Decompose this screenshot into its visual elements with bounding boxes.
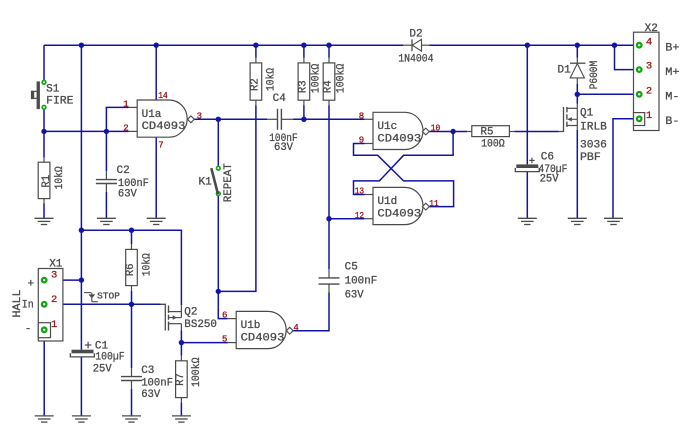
wire X1 pin1 to ground [43,332,45,416]
wire C5 to U1b output [293,293,329,331]
svg-text:P600M: P600M [589,61,601,90]
pin number 8 (U1c) [359,111,364,121]
pin stub U1c pin8 [365,118,373,120]
svg-text:1: 1 [646,110,652,122]
transistor Q1 IRLB3036 (N-MOSFET) [559,104,608,164]
capacitor C1 100uF [70,341,124,376]
svg-text:U1d: U1d [377,196,397,208]
wire supply branch y230 [81,230,181,305]
svg-text:63V: 63V [345,289,364,301]
junction x81/y230 [79,228,84,233]
svg-text:100kΩ: 100kΩ [336,63,348,93]
svg-text:CD4093: CD4093 [377,208,421,220]
svg-text:3: 3 [51,270,57,282]
pin stub U1d pin13 [365,194,374,196]
capacitor C5 100nF [319,261,378,301]
wire rail to C6 [526,45,528,164]
svg-text:STOP: STOP [97,292,120,302]
wire U1a pin1 to node [106,107,128,131]
pin number 14 (U1a) [158,91,168,101]
pin number 2 (X1) [51,294,57,306]
svg-text:R5: R5 [481,127,494,139]
svg-text:10: 10 [431,124,441,134]
ground [172,416,191,422]
pin stub R5 right [509,131,514,133]
resistor R5 100ohm [472,126,510,151]
svg-text:Q2: Q2 [184,306,197,318]
wire supply rail top (right of D2, to X2 B+) [430,44,638,46]
pin stub R7 bottom [180,398,182,403]
wire U1c output [429,131,467,133]
ground [604,218,623,224]
junction U1a out/K1 [216,117,221,122]
wire node to U1a pin2 [44,130,129,132]
wire U1a pin7 to ground [155,137,157,218]
connector X1 (HALL) [38,259,63,342]
wire X1 pin3 to supply branch [46,279,81,281]
pin number 12 (U1d) [355,211,365,221]
wire R7 top [180,343,182,356]
wire U1a output to C4 [194,118,267,120]
svg-text:9: 9 [359,136,364,146]
resistor R3 100k [297,63,322,100]
node label M+ [665,67,679,79]
svg-text:-: - [25,323,32,335]
wire U1b pin5 [181,342,227,344]
wire R2 bottom to K1 node [218,105,256,291]
svg-text:CD4093: CD4093 [377,133,421,145]
pushbutton S1 FIRE [31,80,74,109]
resistor R2 10k [249,63,277,100]
svg-text:100kΩ: 100kΩ [311,63,323,93]
svg-text:25V: 25V [540,174,559,186]
svg-text:3036: 3036 [580,140,607,152]
pin number 13 (U1d) [355,187,365,197]
ground [35,416,54,422]
svg-text:4: 4 [293,323,298,333]
pin number 2 (X2) [646,85,652,97]
svg-text:CD4093: CD4093 [142,121,186,133]
svg-text:1N4004: 1N4004 [398,54,434,66]
wire U1d pin12 [329,218,365,220]
svg-text:1: 1 [123,99,128,109]
op-amp U1b CD4093 (NAND gate) [236,311,293,348]
svg-text:100nF: 100nF [141,377,173,389]
svg-text:10kΩ: 10kΩ [54,166,66,189]
pin number 7 (U1a) [158,141,163,151]
junction S1/R1/U1a [41,129,46,134]
pin number 9 (U1c) [359,136,364,146]
node label B- [665,116,679,128]
svg-text:D2: D2 [409,29,422,41]
junction rail/R3 [301,43,306,48]
svg-text:U1a: U1a [142,109,162,121]
wire supply rail top (left of D2) [44,44,403,46]
svg-text:R7: R7 [175,373,187,386]
pin stub D1 top [576,58,578,64]
svg-text:C2: C2 [117,165,130,177]
svg-text:R6: R6 [125,264,137,277]
svg-text:10kΩ: 10kΩ [141,253,153,276]
wire Q1 source to ground [576,130,578,218]
svg-text:REPEAT: REPEAT [223,163,235,202]
net label HALL [12,290,24,318]
pin stub R4 bottom [328,100,330,105]
pin stub U1b pin5 [228,342,236,344]
diode D1 P600M [558,61,602,90]
pin stub R4 top [328,58,330,63]
wire R4 top [328,45,330,58]
svg-text:100µF: 100µF [95,352,125,364]
wire K1 bottom to node [217,196,219,292]
wire R5 to Q1 gate [514,131,558,133]
svg-text:1: 1 [51,319,57,331]
svg-text:25V: 25V [93,363,112,375]
wire R4 bottom to U1d pin12 / C5 [328,105,330,219]
connector X2 [634,23,660,131]
pin stub R6 top [131,244,133,249]
transistor Q2 BS250 (P-MOSFET) [161,304,217,331]
svg-text:R1: R1 [41,174,53,187]
svg-text:63V: 63V [118,189,137,201]
svg-text:C3: C3 [141,365,154,377]
svg-text:BS250: BS250 [184,319,217,331]
svg-text:Q1: Q1 [580,107,594,119]
node label M- [665,92,679,104]
pin number 4 (X2) [646,36,652,48]
pin number 1 (X1) [51,319,57,331]
pin stub C4 left [267,118,277,120]
junction R6/In/C3 [129,302,134,307]
pin number 10 (U1c) [431,124,441,134]
junction rail/U1a pin14 [154,43,159,48]
wire R1 to ground [43,204,45,219]
wire S1 bottom to node [43,109,45,131]
wire R6 bottom [131,291,133,305]
pin number 3 (U1a) [197,111,202,121]
capacitor C3 100nF [121,365,173,401]
svg-text:63V: 63V [141,389,160,401]
capacitor C2 100nF [96,165,149,200]
junction y230/R6 [129,228,134,233]
svg-text:IRLB: IRLB [580,121,607,133]
wire R7 to ground [180,403,182,416]
wire R3 top [303,45,305,58]
diode D2 1N4004 [398,29,434,66]
op-amp U1a CD4093 (NAND gate) [137,100,194,137]
pin number 2 (U1a) [123,124,128,134]
svg-text:B+: B+ [665,43,679,55]
pin stub U1d pin12 [365,218,373,220]
wire R3 bottom [303,105,305,119]
wire C1 to ground [80,357,82,416]
wire supply branch x81 [80,45,82,230]
pin stub R1 top [43,158,45,163]
wire node to U1b pin6 [218,291,228,318]
svg-text:14: 14 [158,91,168,101]
svg-text:HALL: HALL [12,290,24,318]
wire U1c out to U1d pin13 (cross) [354,132,454,195]
junction pin1/pin2/C2 [104,129,109,134]
pin number 4 (U1b) [293,323,298,333]
node label In (X1 pin2) [22,299,34,311]
wire node to C5 [328,219,330,270]
ground [72,416,91,422]
wire Q2 drain to node [180,331,182,343]
svg-text:FIRE: FIRE [46,95,74,107]
junction rail/D1 [575,43,580,48]
pin stub C3 bottom [131,381,133,389]
junction C4 net/R3 [301,117,306,122]
ground [35,218,54,224]
pin stub R1 bottom [43,199,45,204]
svg-text:D1: D1 [558,65,572,77]
junction K1/R2/U1b pin6 [216,289,221,294]
ground [568,218,587,224]
svg-text:B-: B- [665,116,679,128]
wire R1 top [43,131,45,157]
svg-text:C6: C6 [541,151,554,163]
op-amp U1c CD4093 (NAND gate) [373,112,429,149]
node label B+ [665,43,679,55]
wire rail to D1 cathode [576,45,578,57]
pin stub R3 top [303,58,305,63]
wire U1c pin9 to U1d out (cross) [354,144,454,207]
wire supply branch to X1 pin3 [80,230,82,280]
pin stub R2 bottom [255,100,257,105]
junction rail/M+ [612,43,617,48]
resistor R4 100k [323,63,348,100]
svg-text:63V: 63V [274,142,293,154]
svg-text:10kΩ: 10kΩ [266,68,278,91]
junction D1/Q1 drain/M- [575,92,580,97]
wire C4 to U1c pin8 [293,118,365,120]
junction rail/C6 [525,43,530,48]
svg-text:C4: C4 [273,93,287,105]
wire node to C3 [131,304,133,368]
pin number 3 (X2) [646,61,652,73]
pin stub U1a pin2 [129,130,138,132]
node label - (X1 pin1) [25,323,32,335]
pin number 6 (U1b) [222,311,227,321]
pin stub C2 bottom [105,184,107,192]
pin number 1 (X2) [646,110,652,122]
ground [122,416,141,422]
ground [518,218,537,224]
svg-text:100Ω: 100Ω [481,139,505,151]
svg-text:6: 6 [222,311,227,321]
junction R4 net/U1d pin12 [326,216,331,221]
svg-text:8: 8 [359,111,364,121]
svg-text:3: 3 [197,111,202,121]
pin stub U1c pin9 [365,143,374,145]
pin stub C2 top [105,171,107,179]
wire M+ to rail [615,45,638,69]
svg-text:11: 11 [429,199,439,209]
svg-text:X2: X2 [645,23,658,35]
wire K1 top [217,119,219,166]
svg-text:C5: C5 [345,261,358,273]
pin number 3 (X1) [51,270,57,282]
pin stub R7 top [180,356,182,361]
svg-text:13: 13 [355,187,365,197]
svg-text:2: 2 [51,294,57,306]
resistor R6 10k [125,249,153,285]
pin number 11 (U1d) [429,199,439,209]
capacitor C4 100nF [269,93,298,154]
wire U1a pin14 [155,45,157,100]
pin stub R2 top [255,58,257,63]
pin stub D1 bottom [576,78,578,84]
wire R2 top [255,45,257,58]
testpoint STOP [84,292,120,302]
svg-text:2: 2 [646,85,652,97]
svg-text:R3: R3 [297,80,309,93]
svg-text:2: 2 [123,124,128,134]
ground [147,218,166,224]
junction rail/R4 [326,43,331,48]
svg-text:M-: M- [665,92,679,104]
wire M- to X2 pin2 [577,93,637,95]
svg-text:M+: M+ [665,67,679,79]
resistor R1 10k [38,162,66,198]
junction x81/X1 pin3 [79,277,84,282]
ground [97,218,116,224]
wire R6 top [131,230,133,244]
wire C6 to ground [526,172,528,219]
junction U1c out/R5 [450,129,455,134]
svg-text:+: + [28,278,35,290]
pin stub C3 top [131,368,133,376]
wire C3 to ground [131,389,133,416]
svg-text:R4: R4 [323,80,335,93]
svg-text:100kΩ: 100kΩ [191,357,203,387]
pin stub U1a pin1 [129,106,138,108]
svg-text:3: 3 [646,61,652,73]
svg-text:R2: R2 [249,78,261,91]
svg-text:CD4093: CD4093 [241,332,285,344]
pin stub R3 bottom [303,100,305,105]
resistor R7 100k [175,357,203,397]
junction Q2/R7/U1b pin5 [179,340,184,345]
wire branch to C1 [80,280,82,350]
pin stub R5 left [467,131,472,133]
node label + (X1 pin3) [28,278,35,290]
svg-text:U1b: U1b [241,320,261,332]
pin stub C4 right [281,118,293,120]
wire C2 to ground [105,192,107,218]
svg-text:K1: K1 [199,177,213,189]
pin stub U1b pin6 [228,318,236,320]
wire X2 pin1 B- to ground [613,119,637,218]
pin stub R6 bottom [131,286,133,291]
junction rail/x81 [79,43,84,48]
wire D1 anode to M- node [576,84,578,94]
wire Q1 drain [576,94,578,103]
switch K1 REPEAT [199,163,236,202]
svg-text:PBF: PBF [580,152,601,164]
svg-text:100nF: 100nF [345,276,378,288]
wire S1 top [43,45,45,80]
svg-text:4: 4 [646,36,652,48]
junction rail/R2 [253,43,258,48]
pin stub C5 bottom [328,284,330,292]
svg-text:12: 12 [355,211,365,221]
pin stub C5 top [328,269,330,278]
wire X1 pin2 In to Q2 gate [46,303,160,305]
svg-text:5: 5 [222,335,227,345]
capacitor C6 470uF [515,151,567,185]
wire node to C2 [105,131,107,171]
svg-text:S1: S1 [46,84,60,96]
svg-text:U1c: U1c [377,121,397,133]
pin number 1 (U1a) [123,99,128,109]
svg-text:7: 7 [158,141,163,151]
pin number 5 (U1b) [222,335,227,345]
op-amp U1d CD4093 (NAND gate) [373,187,429,224]
